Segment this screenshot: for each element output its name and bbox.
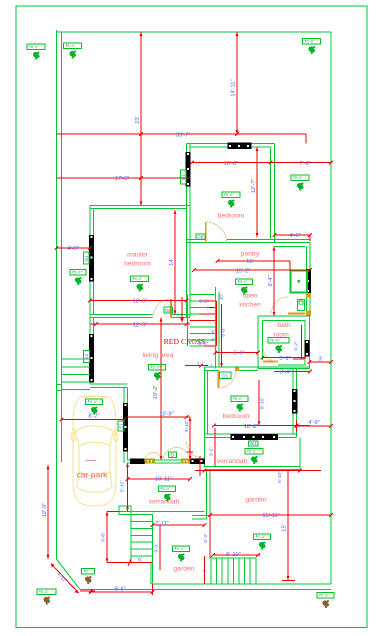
verandah2 door arc — [187, 441, 205, 459]
tag DB master door — [164, 307, 173, 313]
dim 5 fence vertical — [204, 556, 206, 584]
dim 1 marks — [185, 365, 208, 367]
svg-text:3': 3' — [211, 337, 215, 342]
dim 15-2 horizontal — [194, 269, 310, 271]
dim 4-11 diagonal — [51, 564, 79, 594]
kitchen sink counter — [291, 271, 308, 293]
svg-text:master: master — [127, 252, 149, 259]
dim 6-3 vertical — [209, 515, 211, 558]
svg-text:8'-10": 8'-10" — [259, 397, 264, 409]
bath door arc — [263, 347, 278, 362]
svg-text:5'-10": 5'-10" — [226, 552, 241, 558]
svg-text:10'-8": 10'-8" — [159, 411, 174, 417]
window W verandah2 west — [190, 459, 205, 464]
fixture label master bedroom — [131, 276, 149, 281]
svg-text:+5'-0": +5'-0" — [132, 276, 143, 281]
garden west wall — [150, 563, 152, 585]
window W bedroom3 east — [292, 389, 297, 413]
svg-text:+0'-0": +0'-0" — [39, 589, 50, 594]
dim 4-6 right horizontal — [275, 234, 311, 236]
bath door leaf — [263, 361, 278, 363]
svg-text:5'-10": 5'-10" — [119, 480, 124, 492]
svg-text:9'-6": 9'-6" — [114, 587, 125, 593]
window W bath east — [305, 340, 310, 356]
door D1 jamb — [236, 368, 239, 371]
dim 9-10 vertical — [189, 417, 191, 460]
svg-text:DB: DB — [165, 308, 171, 313]
dim 15-11 horizontal — [210, 514, 331, 516]
living area west wall lower — [123, 388, 125, 464]
dim 9-4 vertical — [273, 247, 275, 317]
bedroom door leaf — [205, 222, 207, 243]
toilet door leaf — [288, 313, 305, 315]
master bedroom bottom wall — [90, 317, 153, 319]
svg-text:bedroom: bedroom — [223, 413, 250, 420]
svg-text:RED CROSS: RED CROSS — [164, 337, 206, 346]
svg-text:23': 23' — [135, 116, 141, 123]
svg-text:10': 10' — [218, 294, 223, 300]
bedroom3 bottom wall — [205, 433, 297, 435]
pantry inner wall line — [275, 246, 306, 248]
svg-text:pantry: pantry — [241, 251, 260, 258]
svg-text:8'-8": 8'-8" — [220, 327, 225, 337]
svg-text:12'-5": 12'-5" — [133, 322, 148, 328]
bath room walls — [258, 315, 310, 317]
svg-text:W1: W1 — [250, 441, 257, 446]
tag E bedroom west wall — [181, 170, 187, 184]
inner plot boundary chamfer — [57, 559, 81, 590]
dim 4-6 left horizontal — [57, 247, 91, 249]
fixture label bedroom3 — [231, 396, 248, 401]
bedroom door arc — [206, 222, 227, 243]
dim 9-6 horizontal — [91, 591, 153, 593]
door D1 arc — [219, 371, 237, 389]
dim 10-8 verandah1 horizontal — [128, 416, 191, 418]
bedroom top wall — [187, 143, 275, 145]
toilet door jamb — [307, 311, 311, 315]
svg-text:+5'-0": +5'-0" — [304, 39, 315, 44]
svg-text:19'-2": 19'-2" — [153, 385, 159, 400]
svg-text:+5'-0": +5'-0" — [233, 396, 244, 401]
svg-text:bedroom: bedroom — [124, 261, 151, 268]
svg-text:E1: E1 — [84, 353, 89, 359]
svg-text:4'-6": 4'-6" — [289, 233, 300, 239]
fixture label outside master west — [70, 270, 86, 275]
svg-text:bedroom: bedroom — [218, 213, 245, 220]
svg-text:verrandah: verrandah — [149, 499, 180, 506]
dim verandah2 bottom red line — [195, 470, 321, 472]
svg-text:DB: DB — [197, 235, 203, 240]
svg-text:8'-2": 8'-2" — [88, 414, 99, 420]
dim 17-5 horizontal — [57, 177, 191, 179]
kitchen door jamb — [307, 294, 311, 298]
svg-text:9'-3": 9'-3" — [153, 543, 158, 553]
svg-text:+5'-0": +5'-0" — [87, 399, 98, 404]
living area south wall — [128, 459, 205, 461]
door D1 leaf — [218, 371, 220, 389]
dim 10-8 bedroom horizontal — [192, 162, 271, 164]
tag E living west wall — [84, 351, 90, 363]
svg-text:6'-3": 6'-3" — [203, 533, 208, 543]
svg-text:garden: garden — [173, 566, 194, 573]
inner plot boundary bottom wall — [80, 589, 331, 591]
svg-text:+0': +0' — [83, 569, 89, 574]
dim 7-6 horizontal — [271, 162, 332, 164]
dim 3-4 horizontal — [274, 371, 310, 373]
svg-text:+5'-0": +5'-0" — [237, 279, 248, 284]
svg-text:1': 1' — [210, 363, 214, 368]
dim 14-11 vertical — [236, 32, 238, 134]
fixture label bottom chamfer — [82, 569, 95, 574]
bedroom bottom wall / pantry north wall — [187, 239, 206, 241]
master door arc — [153, 299, 171, 317]
dim 5-10 vertical right — [287, 471, 289, 581]
master bedroom top wall — [90, 205, 190, 207]
tag DB bedroom door — [196, 234, 205, 240]
svg-text:3'-2": 3'-2" — [208, 447, 213, 457]
tag E master west wall — [84, 252, 90, 264]
fixture label living — [149, 365, 166, 370]
dim 14 vertical — [174, 210, 176, 315]
window W bedroom north — [228, 143, 252, 149]
bedroom3 right wall — [292, 369, 294, 435]
staircase center — [187, 295, 189, 347]
window W living west2 — [123, 403, 128, 451]
dim 23 vertical — [140, 32, 142, 206]
entry steps left — [62, 358, 91, 360]
dim 12-7 vertical — [256, 147, 258, 237]
svg-text:+6'-0": +6'-0" — [270, 338, 281, 343]
svg-text:E1: E1 — [119, 423, 124, 429]
door D1 label — [220, 372, 232, 379]
dim 8-2 horizontal — [62, 419, 125, 421]
tag D verandah — [169, 452, 177, 458]
kitchen east wall — [309, 243, 311, 317]
svg-text:bath: bath — [277, 322, 290, 329]
window W master west — [89, 235, 94, 281]
garden fence pergola — [211, 558, 256, 584]
svg-text:3'-4": 3'-4" — [280, 370, 291, 376]
dim 9-3 vertical — [159, 525, 161, 570]
living south door arc small — [145, 453, 162, 462]
dim 5-9 bath horizontal — [263, 357, 306, 359]
svg-text:15'-2": 15'-2" — [236, 268, 251, 274]
dim 7-11 horizontal — [153, 524, 205, 526]
svg-text:living area: living area — [143, 352, 174, 359]
garden steps — [192, 515, 210, 517]
svg-text:+5'-0": +5'-0" — [255, 534, 266, 539]
toilet door arc — [272, 297, 289, 314]
inner plot boundary top wall — [57, 31, 332, 33]
svg-text:33'-7": 33'-7" — [176, 133, 191, 139]
window W living west1 — [89, 334, 94, 382]
svg-text:kitchen: kitchen — [239, 302, 261, 309]
dim 10-11 horizontal — [128, 478, 191, 480]
red tick bottom left — [80, 590, 95, 592]
svg-text:+5'-0": +5'-0" — [150, 365, 161, 370]
fixture label bottom-left outer — [37, 589, 56, 594]
sliding panel olive1 — [145, 459, 155, 463]
master bedroom / bedroom shared wall — [186, 144, 188, 318]
svg-text:+5'-0": +5'-0" — [29, 44, 40, 49]
svg-text:5'-9": 5'-9" — [279, 356, 290, 362]
dim 5-9 stairs horizontal — [216, 352, 259, 354]
living area west wall upper — [89, 318, 91, 385]
svg-text:verrandah: verrandah — [217, 458, 248, 465]
fixture label verandah1 — [159, 486, 176, 491]
garden west wall upper — [206, 470, 208, 520]
svg-text:15'-11": 15'-11" — [262, 513, 279, 519]
svg-text:10'-8": 10'-8" — [244, 424, 259, 430]
window W living south — [130, 459, 145, 464]
dim 10-8 bedroom3 horizontal — [214, 425, 310, 427]
svg-text:15': 15' — [281, 524, 287, 531]
tag E living window wall — [118, 421, 124, 431]
dim 5-10 garden horizontal — [213, 554, 260, 556]
fixture label top-right — [303, 39, 321, 44]
dim 5-10 vertical car — [127, 463, 129, 512]
fixture label bottom-right — [317, 593, 334, 598]
svg-text:5'-5": 5'-5" — [199, 299, 209, 304]
sliding panel olive2 — [182, 459, 191, 463]
stairwell wall — [215, 287, 217, 369]
window W bedroom west — [186, 152, 191, 186]
svg-text:7'-6": 7'-6" — [299, 161, 310, 167]
dim 5 stairs horizontal — [131, 562, 153, 564]
dim 12-6 horizontal — [90, 300, 187, 302]
dim 33-7 horizontal — [57, 133, 307, 135]
svg-text:5'-10": 5'-10" — [277, 471, 282, 483]
dim 3-2 vertical — [214, 428, 216, 467]
svg-text:5'-9": 5'-9" — [233, 351, 244, 357]
svg-text:10'-11": 10'-11" — [155, 477, 172, 483]
dim 19-2 vertical — [160, 318, 162, 461]
svg-text:+5'-0": +5'-0" — [72, 270, 83, 275]
dim 6-2 vertical — [301, 325, 303, 359]
verandah1 south wall — [119, 511, 205, 513]
svg-text:5': 5' — [138, 557, 142, 563]
fixture label car park — [86, 399, 103, 404]
svg-text:4'-6": 4'-6" — [67, 246, 78, 252]
dim 12-9 vertical — [47, 465, 49, 559]
fixture label bedroom — [222, 192, 240, 197]
svg-text:+5'-0": +5'-0" — [247, 449, 258, 454]
svg-text:7'-11": 7'-11" — [155, 521, 169, 527]
svg-text:14': 14' — [169, 258, 175, 265]
svg-text:16': 16' — [246, 259, 253, 265]
dim 6-8 vertical — [106, 512, 108, 563]
red vertical at verandah2 west — [199, 456, 201, 476]
bedroom3 top wall — [205, 366, 311, 368]
svg-text:5': 5' — [202, 569, 207, 573]
svg-text:3': 3' — [318, 357, 322, 363]
inner plot boundary left wall (double) — [56, 30, 58, 559]
svg-text:10'-8": 10'-8" — [224, 161, 239, 167]
svg-text:1': 1' — [197, 360, 201, 365]
svg-text:+5'-0": +5'-0" — [65, 43, 76, 48]
dim 8-8 vertical — [221, 304, 223, 367]
svg-text:12'-6": 12'-6" — [133, 299, 148, 305]
svg-text:+5'-0": +5'-0" — [224, 192, 235, 197]
fixture label verandah2 — [245, 449, 263, 454]
car park mark — [86, 460, 97, 462]
svg-text:E1: E1 — [181, 174, 186, 180]
verandah2 bottom wall — [205, 466, 301, 468]
bedroom3 left wall — [204, 367, 206, 467]
svg-text:+0'-0": +0'-0" — [319, 593, 330, 598]
dim 3 horizontal — [310, 361, 332, 363]
svg-text:6'-2": 6'-2" — [294, 341, 299, 351]
stair up arrow — [181, 297, 183, 318]
fixture label garden right — [254, 534, 271, 539]
svg-text:12'-7": 12'-7" — [251, 179, 257, 194]
svg-text:14'-11": 14'-11" — [231, 79, 237, 96]
svg-text:17'-5": 17'-5" — [115, 176, 130, 182]
fixture label top-left a — [27, 44, 45, 49]
svg-text:+5'-0": +5'-0" — [160, 486, 171, 491]
toilet fixture — [298, 300, 305, 311]
inner plot boundary right wall — [330, 32, 332, 584]
verandah2 right wall — [299, 438, 301, 470]
svg-text:9'-10": 9'-10" — [184, 420, 189, 432]
svg-text:garden: garden — [245, 497, 266, 504]
svg-text:4': 4' — [211, 329, 215, 334]
red cross tick living door — [187, 451, 194, 453]
label W1 — [249, 441, 259, 446]
fixture label kitchen — [236, 279, 253, 284]
master door leaf — [170, 299, 172, 318]
bedroom right wall — [270, 147, 272, 240]
dim 4-9 horizontal — [297, 425, 332, 427]
stair right red dim line — [215, 301, 217, 346]
fixture label garden left — [173, 546, 190, 551]
svg-text:4'-9": 4'-9" — [308, 420, 319, 426]
stair landing — [119, 506, 131, 515]
svg-text:E1: E1 — [84, 255, 89, 261]
living south door arc large — [163, 448, 190, 462]
svg-text:6'-8": 6'-8" — [100, 532, 105, 542]
dim 12-5 horizontal — [90, 323, 190, 325]
svg-text:+5'-0": +5'-0" — [174, 546, 185, 551]
dim 8-10 vertical — [258, 380, 260, 426]
svg-text:+5'-0": +5'-0" — [293, 175, 304, 180]
garden south wall — [152, 583, 332, 585]
svg-text:car park: car park — [77, 470, 108, 480]
master bedroom left wall — [89, 206, 91, 318]
staircase lower treads — [131, 521, 153, 523]
svg-text:9'-4": 9'-4" — [268, 275, 274, 286]
living area step wall — [90, 383, 128, 385]
fixture label top-left b — [64, 43, 82, 48]
staircase lower outline — [131, 515, 153, 563]
window W kitchen east — [306, 269, 311, 293]
car in car park — [71, 396, 118, 506]
dim 16 horizontal — [218, 260, 291, 262]
svg-text:D1: D1 — [222, 373, 228, 378]
fixture label right upper — [291, 175, 309, 180]
svg-text:12'-9": 12'-9" — [42, 503, 48, 518]
fixture label bath — [268, 338, 289, 343]
window W1 bedroom3 south — [231, 434, 278, 440]
